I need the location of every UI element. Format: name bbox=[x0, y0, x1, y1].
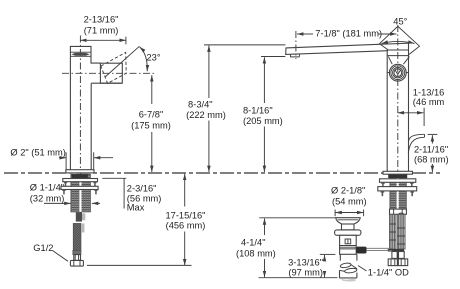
dimension diameter 2 inch (51 mm) bbox=[10, 147, 113, 170]
left hose ferrule bbox=[73, 250, 81, 254]
tailpiece break 2 bbox=[340, 268, 358, 274]
supply hose J right view bbox=[408, 134, 424, 153]
dimension diameter 1-1/4 (32 mm) bbox=[30, 183, 100, 204]
right mounting nut bbox=[390, 209, 407, 214]
svg-text:(222 mm): (222 mm) bbox=[186, 110, 226, 120]
drain flange bbox=[335, 230, 361, 235]
svg-text:(71 mm): (71 mm) bbox=[84, 26, 119, 36]
svg-text:(46 mm: (46 mm bbox=[413, 97, 445, 107]
right washer 1 bbox=[380, 179, 416, 188]
svg-text:(108 mm): (108 mm) bbox=[236, 249, 276, 259]
dimension diameter 2-1/8 (54 mm) bbox=[331, 186, 367, 217]
handle joint cross bbox=[388, 57, 409, 65]
drain rod knob bbox=[356, 247, 366, 254]
tailpiece torn end bbox=[342, 279, 356, 282]
svg-text:Ø 1-1/4": Ø 1-1/4" bbox=[30, 183, 64, 193]
23 degree reference line bbox=[105, 46, 139, 77]
label 1-1/4 OD bbox=[358, 266, 409, 278]
left washer 2 bbox=[61, 186, 98, 194]
dimension 3-13/16 (97 mm) bbox=[288, 254, 335, 277]
dimension 17-15/16 (456 mm) bbox=[87, 174, 206, 266]
svg-text:(97 mm): (97 mm) bbox=[288, 268, 323, 278]
dimension 7-1/8 (181 mm) bbox=[297, 29, 396, 39]
aerator left view bbox=[70, 52, 91, 56]
45 degree arc bbox=[382, 41, 415, 43]
2-3/16 Max bracket bbox=[102, 178, 161, 212]
right deck flange bbox=[383, 171, 412, 174]
dimension 2-13/16 (71 mm) bbox=[80, 15, 126, 45]
left deck flange bbox=[66, 170, 94, 173]
23 degree arc bbox=[140, 47, 148, 71]
right supply hoses bbox=[388, 214, 405, 251]
svg-text:2-13/16": 2-13/16" bbox=[84, 15, 119, 25]
ball joint bbox=[398, 213, 404, 219]
svg-text:4-1/4": 4-1/4" bbox=[241, 238, 266, 248]
aerator nozzle right view bbox=[290, 54, 299, 57]
left threaded shank bbox=[71, 174, 91, 212]
right washer 2 bbox=[378, 187, 417, 196]
svg-text:23°: 23° bbox=[147, 53, 161, 63]
svg-text:(175 mm): (175 mm) bbox=[131, 121, 171, 131]
handle square left view bbox=[100, 63, 122, 83]
right hose end fittings bbox=[388, 252, 407, 266]
svg-text:8-1/16": 8-1/16" bbox=[243, 106, 273, 116]
drain tailpiece bbox=[340, 254, 357, 278]
drain body threads bbox=[340, 246, 357, 249]
dimension 4-1/4 (108 mm) bbox=[236, 218, 338, 278]
45 degree V lines bbox=[380, 26, 420, 55]
svg-text:Max: Max bbox=[127, 202, 145, 212]
svg-text:6-7/8": 6-7/8" bbox=[139, 110, 164, 120]
left washer 1 bbox=[63, 179, 98, 187]
deck line bbox=[4, 172, 440, 174]
dimension 6-7/8 (175 mm) bbox=[131, 75, 171, 172]
pop-up rod bbox=[366, 248, 392, 250]
left gasket bbox=[72, 174, 88, 178]
left supply hose bbox=[73, 223, 84, 250]
spout arm right view bbox=[286, 43, 409, 54]
svg-text:1-13/16: 1-13/16 bbox=[413, 87, 445, 97]
svg-text:45°: 45° bbox=[393, 17, 407, 27]
svg-text:(68 mm): (68 mm) bbox=[414, 154, 449, 164]
G1/2 label bbox=[33, 243, 68, 261]
faucet column right view bbox=[387, 43, 408, 171]
svg-text:17-15/16": 17-15/16" bbox=[165, 210, 205, 220]
dimension 8-3/4 (222 mm) bbox=[186, 45, 285, 172]
left hose collar bbox=[74, 255, 81, 261]
svg-text:2-11/16": 2-11/16" bbox=[414, 144, 448, 154]
svg-text:(32 mm): (32 mm) bbox=[30, 194, 65, 204]
dimension 1-13/16 (46 mm) bbox=[398, 87, 445, 126]
svg-text:3-13/16": 3-13/16" bbox=[288, 258, 323, 268]
dimension 2-11/16 (68 mm) bbox=[414, 134, 449, 172]
svg-text:(456 mm): (456 mm) bbox=[166, 220, 206, 230]
svg-text:Ø 2-1/8": Ø 2-1/8" bbox=[331, 186, 365, 196]
svg-text:(54 mm): (54 mm) bbox=[332, 197, 367, 207]
overflow hole bbox=[345, 239, 351, 244]
centerline left spout bbox=[79, 36, 81, 221]
centerline right column bbox=[397, 25, 399, 250]
svg-text:2-3/16": 2-3/16" bbox=[127, 183, 157, 193]
dimension 8-1/16 (205 mm) bbox=[243, 57, 285, 173]
svg-text:(205 mm): (205 mm) bbox=[243, 116, 283, 126]
svg-text:G1/2: G1/2 bbox=[33, 243, 53, 253]
svg-text:8-3/4": 8-3/4" bbox=[188, 100, 213, 110]
centerline spout outlet right view bbox=[295, 31, 297, 59]
tailpiece break 1 bbox=[340, 262, 357, 268]
svg-text:7-1/8" (181 mm): 7-1/8" (181 mm) bbox=[315, 29, 382, 39]
handle circle bbox=[387, 64, 408, 81]
centerline handle pivot bbox=[62, 72, 156, 74]
spout body left view bbox=[70, 46, 121, 169]
right gasket bbox=[388, 175, 407, 179]
drain neck bbox=[342, 224, 355, 230]
right threaded shank bbox=[390, 175, 406, 210]
svg-text:Ø 2" (51 mm): Ø 2" (51 mm) bbox=[10, 147, 65, 157]
handle paddle front bbox=[387, 50, 408, 56]
drain cap bbox=[336, 218, 360, 224]
drain body bbox=[340, 235, 357, 254]
G1/2 fitting bbox=[70, 260, 83, 266]
tilted handle dashed bbox=[101, 52, 126, 83]
svg-text:1-1/4" OD: 1-1/4" OD bbox=[368, 267, 409, 277]
left hose connector bbox=[76, 212, 86, 221]
